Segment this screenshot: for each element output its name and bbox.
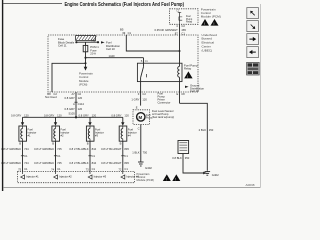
ground G402 (right) xyxy=(205,171,220,177)
label: 2 BLK 150 xyxy=(199,128,214,132)
label: PCM pin 75 C1 xyxy=(18,167,28,172)
label: 0.8 GRY 120 (upper) xyxy=(65,96,83,100)
svg-text:150: 150 xyxy=(209,128,214,132)
ground G402 (pump) xyxy=(138,162,152,170)
svg-text:B: B xyxy=(19,142,21,146)
svg-text:120: 120 xyxy=(78,107,83,111)
label: text inside PCM box xyxy=(186,15,193,23)
wire: feed line under bus bar with junction dots xyxy=(75,41,99,43)
wire: relay switch output to fuel pump feed, pin F C2 xyxy=(140,82,142,106)
svg-text:845: 845 xyxy=(124,161,129,165)
label: 0.8 GRY 120 feed injector 3 xyxy=(79,114,97,118)
svg-text:!: ! xyxy=(204,22,205,26)
svg-text:C1: C1 xyxy=(92,154,96,158)
svg-text:0.8 GRY: 0.8 GRY xyxy=(65,107,75,111)
svg-text:0.8 LT GRN/BLK: 0.8 LT GRN/BLK xyxy=(34,161,54,165)
op-amp U1: PCM (Powertrain Control Module) top dashed box xyxy=(170,9,199,24)
wire: page frame left border xyxy=(2,0,4,191)
svg-text:A: A xyxy=(73,102,75,106)
wire: pin A7 C2 down to splice S105 xyxy=(75,92,77,117)
svg-text:Cell 10: Cell 10 xyxy=(106,47,115,51)
svg-text:120: 120 xyxy=(24,114,29,118)
svg-text:B5: B5 xyxy=(120,28,124,32)
svg-text:120: 120 xyxy=(78,96,83,100)
svg-text:0.8 BLK: 0.8 BLK xyxy=(172,156,182,160)
svg-text:1 GRY: 1 GRY xyxy=(131,97,139,101)
node: pin B8 C2 Not Used xyxy=(45,92,57,99)
node: inline connector C1 injector 2 xyxy=(54,154,61,158)
label: Fuel Level Sensor w/ Fuel Pump xyxy=(152,109,174,119)
inductor L3: fuel injector #3 coil box xyxy=(86,126,94,141)
nav button: diagonal arrow up-left xyxy=(247,8,259,19)
warning triangle icon 2 (top) xyxy=(211,19,219,26)
label: 0.8 LT GRN/BLK 745 (lower) xyxy=(34,161,62,165)
label: PCM pin 73 C1 xyxy=(86,167,96,172)
label: pin F C2 xyxy=(138,92,147,96)
label: Powertrain Control Module (PCM) bottom xyxy=(137,172,154,182)
svg-text:745: 745 xyxy=(57,147,62,151)
label: Powertrain Control Module (PCM) top-right xyxy=(201,8,221,19)
wire: arrow down into PCM xyxy=(84,63,88,70)
svg-text:(fuel tank w/pump): (fuel tank w/pump) xyxy=(152,115,174,119)
svg-text:0.8 LT GRN/BLK: 0.8 LT GRN/BLK xyxy=(1,161,21,165)
svg-text:C1: C1 xyxy=(57,154,61,158)
node: inline connector C1 injector 1 xyxy=(21,154,28,158)
node: inline connector C1 injector 3 xyxy=(88,154,95,158)
transistor Q2: injector #2 driver xyxy=(54,172,72,180)
label: PCM pin 72 C1 xyxy=(118,167,128,172)
svg-text:750: 750 xyxy=(143,151,148,155)
fuse PCM 1 20A xyxy=(83,45,88,51)
svg-text:0.8 LT BLU/BLK: 0.8 LT BLU/BLK xyxy=(69,161,88,165)
label: Underhood Bussed Electrical Center (UBEC) xyxy=(202,33,218,53)
svg-text:0.8 GRY: 0.8 GRY xyxy=(44,114,54,118)
label: 0.8 GRY 120 feed injector 1 xyxy=(11,114,29,118)
label: Ground Distribution Cell 14 with ref arrow xyxy=(185,84,204,94)
svg-text:0.8 LT GRN/BLK: 0.8 LT GRN/BLK xyxy=(34,147,54,151)
wire: page right border xyxy=(260,4,262,187)
svg-text:844: 844 xyxy=(92,147,97,151)
label: pin A7 C2 xyxy=(72,92,82,96)
svg-text:Relay: Relay xyxy=(184,67,192,71)
svg-text:C2: C2 xyxy=(78,92,82,96)
wire: drop with arrow into injector 2 xyxy=(54,117,57,126)
svg-text:A7: A7 xyxy=(72,92,76,96)
label: Fuel Pump Prime Connector xyxy=(158,92,171,105)
svg-text:744: 744 xyxy=(24,161,29,165)
wire: drop with arrow into injector 4 xyxy=(121,117,124,126)
svg-text:C1: C1 xyxy=(181,32,185,36)
wire: 0.8 BLK 350 from box to ground xyxy=(183,154,207,175)
label: pin B injector 2 xyxy=(52,142,54,146)
svg-text:0.8 GRY: 0.8 GRY xyxy=(65,96,75,100)
node: underhood ground splice box xyxy=(178,141,189,154)
svg-text:20 A: 20 A xyxy=(90,51,96,55)
svg-text:C8: C8 xyxy=(181,92,185,96)
svg-text:#4: #4 xyxy=(128,134,131,138)
label: Power Distribution Cell 10 (right of bus) with ref arrow xyxy=(101,41,120,51)
label: Fuel Pump (inside tank box) xyxy=(146,115,153,120)
svg-text:C2: C2 xyxy=(181,24,185,28)
svg-text:S105: S105 xyxy=(69,112,76,116)
svg-text:Injector #1: Injector #1 xyxy=(26,175,39,179)
inductor L2: fuel injector #2 coil box xyxy=(52,126,60,141)
svg-text:C1: C1 xyxy=(57,167,61,171)
svg-text:A0038: A0038 xyxy=(246,183,255,187)
svg-text:Not Used: Not Used xyxy=(45,95,57,99)
label: pin E C8 xyxy=(177,92,186,96)
svg-text:#1: #1 xyxy=(28,134,31,138)
transistor Q1: injector #1 driver xyxy=(21,172,39,180)
svg-text:NC: NC xyxy=(92,38,96,42)
wire: junction left and down to pin B8 xyxy=(52,63,86,92)
svg-text:Connector: Connector xyxy=(158,100,171,104)
svg-text:1 BLK: 1 BLK xyxy=(132,151,140,155)
svg-text:Relay: Relay xyxy=(186,21,193,24)
wire: bus to fuse xyxy=(85,42,87,45)
label: 0.8 GRY 120 feed injector 2 xyxy=(44,114,62,118)
wire: 2 BLK 150 ground run xyxy=(180,103,208,170)
label: pin 4 C2 xyxy=(176,24,185,28)
nav button: diagonal arrow down-right xyxy=(247,21,259,32)
label: pin B injector 1 xyxy=(19,142,21,146)
label: 1 GRY 120 xyxy=(131,97,147,101)
svg-text:Fuel: Fuel xyxy=(146,115,151,117)
svg-text:#3: #3 xyxy=(95,134,98,138)
svg-text:75: 75 xyxy=(18,168,21,172)
svg-text:0.8 LT BLU/WHT: 0.8 LT BLU/WHT xyxy=(101,147,122,151)
wire: ignition feed branch to coil xyxy=(126,35,180,52)
label: 0.35 DK GRN/WHT 465 xyxy=(155,28,187,32)
wire: injector 1 return to PCM driver xyxy=(22,141,24,171)
svg-text:Module (PCM): Module (PCM) xyxy=(137,178,154,182)
transistor Q3: injector #3 driver xyxy=(88,172,106,180)
label: Fuel Pump Relay xyxy=(184,64,198,71)
svg-text:120: 120 xyxy=(92,114,97,118)
label: pin B injector 4 xyxy=(120,142,122,146)
svg-text:350: 350 xyxy=(185,156,190,160)
wire: PCM pin 4 C2 to relay coil, 0.35 DK GRN/WHT 465 xyxy=(179,24,181,63)
wire: pump ground lead, pin C xyxy=(138,124,141,162)
svg-text:(UBEC): (UBEC) xyxy=(202,48,213,52)
svg-text:Injector #3: Injector #3 xyxy=(94,175,107,179)
relay: fuel pump relay box xyxy=(137,63,182,81)
node: inline connector A C114 xyxy=(73,102,84,106)
svg-text:745: 745 xyxy=(57,161,62,165)
wire: junction right to relay switch, label 440 xyxy=(86,54,144,63)
svg-text:!: ! xyxy=(175,178,176,182)
svg-text:Module (PCM): Module (PCM) xyxy=(201,15,221,19)
label: figure number A0038 xyxy=(246,183,255,187)
svg-text:C: C xyxy=(138,126,140,130)
label: 0.8 BLK 350 xyxy=(172,156,190,160)
svg-text:1440: 1440 xyxy=(109,54,115,58)
label: Fuel Injector #2 xyxy=(61,128,70,138)
label: 0.8 LT BLU/WHT 845 (upper) xyxy=(101,147,129,151)
wire: drop with arrow into injector 3 xyxy=(88,117,91,126)
op-amp U2: PCM bottom dashed box (injector drivers) xyxy=(18,172,135,183)
warning triangle icon (relay) xyxy=(184,71,192,79)
svg-text:#2: #2 xyxy=(61,134,64,138)
svg-text:744: 744 xyxy=(24,147,29,151)
label: Fuel Injector #1 xyxy=(28,128,37,138)
svg-text:G402: G402 xyxy=(212,173,219,177)
svg-text:0.8 GRY: 0.8 GRY xyxy=(11,114,21,118)
svg-text:0.8 LT BLU/WHT: 0.8 LT BLU/WHT xyxy=(101,161,122,165)
svg-text:Injector #2: Injector #2 xyxy=(59,175,72,179)
svg-text:C1: C1 xyxy=(124,167,128,171)
node: junction to PCM feed xyxy=(84,62,86,64)
nav button: arrow right xyxy=(247,34,259,45)
label: pin B C1 relay switch xyxy=(141,60,149,63)
svg-text:!: ! xyxy=(187,75,188,79)
wire: page bottom rule xyxy=(3,187,261,189)
svg-text:C1: C1 xyxy=(24,154,28,158)
label: 0.8 GRY 120 feed injector 4 xyxy=(111,114,129,118)
inductor L1: fuel injector #1 coil box xyxy=(19,126,27,141)
svg-text:Cell 11: Cell 11 xyxy=(58,44,67,48)
svg-text:120: 120 xyxy=(142,97,147,101)
svg-text:B: B xyxy=(52,142,54,146)
svg-text:Cell 14: Cell 14 xyxy=(190,89,199,93)
wire: injector 4 return to PCM driver xyxy=(122,141,124,171)
label: 0.8 LT GRN/BLK 745 (upper) xyxy=(34,147,62,151)
transistor Q4: injector #4 driver xyxy=(121,172,139,180)
motor M1: fuel pump xyxy=(137,113,145,121)
label: 0.8 GRY 120 (lower) xyxy=(65,107,83,111)
svg-text:2 BLK: 2 BLK xyxy=(199,128,207,132)
wire: header rule xyxy=(3,3,62,5)
label: Fuse Block Details Cell 11 (left of bus) xyxy=(58,37,75,47)
label: NC tag xyxy=(92,38,96,42)
svg-text:C1: C1 xyxy=(124,154,128,158)
node: battery positive bus bar (hatched) xyxy=(76,36,97,41)
svg-text:B: B xyxy=(120,142,122,146)
svg-text:844: 844 xyxy=(92,161,97,165)
label: pin 87 at UBEC edge xyxy=(175,32,186,36)
inductor L4: fuel injector #4 coil box xyxy=(119,126,127,141)
wire: relay coil ground side down, pin E C8 xyxy=(179,82,181,104)
wire: injector feed bus xyxy=(23,116,123,118)
label: Powertrain Control Module (PCM) mid xyxy=(79,72,93,87)
wire: injector 3 return to PCM driver xyxy=(89,141,91,171)
label: PCM 1 Fuse 20 A xyxy=(90,45,99,55)
svg-text:73: 73 xyxy=(86,168,89,172)
title: Engine Controls Schematics (Fuel Injectors And Fuel Pump) xyxy=(65,2,185,8)
svg-text:0.35 DK GRN/WHT: 0.35 DK GRN/WHT xyxy=(155,28,179,32)
svg-text:C1: C1 xyxy=(92,167,96,171)
svg-text:B: B xyxy=(87,142,89,146)
svg-text:845: 845 xyxy=(124,147,129,151)
node: UBEC dashed enclosure xyxy=(48,35,198,92)
svg-text:E: E xyxy=(136,106,138,110)
nav button: dark grid/table icon xyxy=(247,62,260,75)
svg-text:M: M xyxy=(139,115,143,120)
warning triangle icon 2 (bottom) xyxy=(172,174,180,181)
wire: drop with arrow into injector 1 xyxy=(21,117,24,126)
label: 0.8 LT BLU/WHT 845 (lower) xyxy=(101,161,129,165)
relay switch contacts xyxy=(141,63,147,81)
svg-text:87: 87 xyxy=(175,32,178,36)
svg-text:C114: C114 xyxy=(78,102,85,106)
label: PCM pin 74 C1 xyxy=(51,167,61,172)
node: fuel tank module dashed box xyxy=(133,110,150,125)
svg-text:E: E xyxy=(177,92,179,96)
svg-text:120: 120 xyxy=(57,114,62,118)
relay coil xyxy=(178,63,180,81)
label: pin 39 C1 at UBEC top edge xyxy=(120,28,132,35)
label: 0.8 LT GRN/BLK 744 (lower) xyxy=(1,161,29,165)
node: junction to relay feed xyxy=(84,57,86,59)
svg-text:0.8 LT BLU/BLK: 0.8 LT BLU/BLK xyxy=(69,147,88,151)
svg-text:G402: G402 xyxy=(145,166,152,170)
warning triangle icon 1 (top) xyxy=(201,19,209,26)
label: 0.8 LT GRN/BLK 744 (upper) xyxy=(1,147,29,151)
label: Fuel Injector #3 xyxy=(95,128,104,138)
nav button: arrow left xyxy=(247,47,259,58)
svg-text:0.8 GRY: 0.8 GRY xyxy=(111,114,121,118)
svg-text:0.8 GRY: 0.8 GRY xyxy=(79,114,89,118)
label: pin E xyxy=(136,106,138,110)
label: 0.8 LT BLU/BLK 844 (upper) xyxy=(69,147,96,151)
svg-text:(PCM): (PCM) xyxy=(79,82,87,86)
svg-text:120: 120 xyxy=(124,114,129,118)
warning triangle icon 1 (bottom) xyxy=(163,174,171,181)
svg-text:!: ! xyxy=(166,178,167,182)
label: pin B injector 3 xyxy=(87,142,89,146)
svg-text:74: 74 xyxy=(51,168,54,172)
label: 1 BLK 750 xyxy=(132,151,147,155)
svg-text:C2: C2 xyxy=(142,92,146,96)
wire: fuse down to junctions xyxy=(85,52,87,64)
svg-text:C1: C1 xyxy=(24,167,28,171)
label: 0.8 LT BLU/BLK 844 (lower) xyxy=(69,161,96,165)
node: splice S105 xyxy=(69,112,78,119)
label: Fuel Injector #4 xyxy=(128,128,137,138)
wire: PCM internal driver to pin 4 xyxy=(176,10,182,25)
svg-text:0.8 LT GRN/BLK: 0.8 LT GRN/BLK xyxy=(1,147,21,151)
node: inline connector C1 injector 4 xyxy=(121,154,128,158)
wire: injector 2 return to PCM driver xyxy=(55,141,57,171)
svg-text:72: 72 xyxy=(118,168,121,172)
svg-text:465: 465 xyxy=(181,28,186,32)
svg-text:C1: C1 xyxy=(128,31,132,35)
svg-text:Engine Controls Schematics (Fu: Engine Controls Schematics (Fuel Injecto… xyxy=(65,2,185,8)
svg-text:!: ! xyxy=(214,22,215,26)
